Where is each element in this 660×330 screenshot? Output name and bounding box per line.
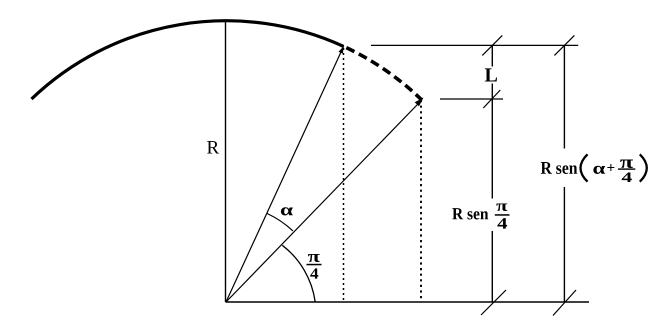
label: R (radius)	[207, 141, 219, 153]
arc: small angle arc for alpha	[267, 214, 293, 231]
wire: vertical dimension line 1 upper segment	[491, 45, 493, 66]
label: L dimension	[485, 68, 497, 81]
tick: slash on baseline at x=493	[481, 290, 506, 315]
wire: vertical dimension line 1 lower segment	[491, 231, 493, 302]
arrowhead at end of radial line 2	[415, 98, 424, 107]
wire: dotted vertical projection from dashed arc end	[420, 100, 422, 302]
label: R sen pi/4 dimension	[452, 203, 509, 228]
wire: radial line at angle alpha+pi/4	[226, 46, 344, 302]
wire: vertical dimension line 2 lower segment	[563, 187, 565, 302]
wire: vertical dimension line 1 middle segment	[491, 84, 493, 199]
wire: middle horizontal dimension line	[440, 98, 503, 100]
wire: horizontal baseline	[226, 301, 590, 303]
wire: radial line at angle pi/4	[226, 100, 422, 302]
wire: vertical dimension line 2 upper segment	[563, 45, 565, 148]
wire: top horizontal dimension line	[371, 44, 578, 46]
arc: angle arc for pi/4	[282, 245, 315, 302]
arc: thick solid circle arc of radius R	[32, 21, 344, 99]
label: alpha angle	[281, 207, 293, 215]
wire: vertical radius line R	[225, 21, 227, 302]
label: R sen (alpha + pi/4) dimension	[541, 154, 647, 182]
tick: slash on top dimension line at x=492	[482, 35, 502, 55]
tick: slash on baseline at x=564	[553, 290, 576, 316]
tick: slash on middle dimension line	[483, 90, 500, 108]
label: pi/4 fraction near origin	[307, 254, 322, 279]
tick: slash on top dimension line at x=564	[554, 35, 574, 55]
arc: thick dashed continuation of the circle arc	[344, 46, 422, 100]
arrowhead at end of radial line 1	[339, 46, 344, 53]
wire: dotted vertical projection from solid/dashed junction	[343, 48, 345, 302]
